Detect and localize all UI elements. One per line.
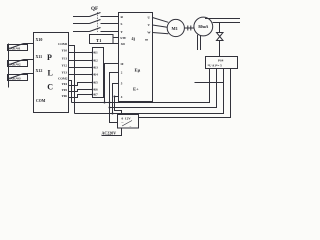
svg-text:X12: X12 [36,68,43,73]
PSU converter symbol [122,121,132,127]
switch SA1 label box [8,45,28,51]
svg-text:T: T [121,30,124,34]
wire inverter pin2 and PSU left feed [110,73,119,123]
switch SA2 label box [8,61,28,67]
inverter U2 box [119,13,153,102]
svg-text:K1: K1 [94,51,98,55]
svg-text:PS4: PS4 [218,58,224,62]
breaker QF pole 2 [73,20,119,24]
wire X10 stub [24,43,34,45]
svg-text:SA0₁*01: SA0₁*01 [9,47,21,51]
wire inverter pin10 [105,64,119,103]
svg-text:Y12: Y12 [62,64,68,68]
svg-text:2: 2 [121,71,123,75]
wire Y12-K3 [69,67,93,69]
pipe suction line 1 [197,35,199,50]
svg-text:COM2: COM2 [58,77,68,81]
svg-text:K4: K4 [94,73,98,77]
svg-text:K7: K7 [94,93,98,97]
PSU 12V box [118,115,139,129]
svg-text:R: R [121,15,124,19]
svg-text:4: 4 [121,95,123,99]
svg-text:B0шA: B0шA [198,25,208,29]
wire Y13-K4 [69,74,93,76]
svg-text:Y11: Y11 [62,57,68,61]
svg-text:Eμ: Eμ [135,68,141,73]
wire T1 to SD [113,43,119,45]
svg-text:C: C [47,83,53,92]
svg-text:X10: X10 [36,37,43,42]
motor M1 circle [167,19,184,36]
wire Y05-K6 [69,90,93,92]
PLC U1 box [34,33,69,113]
svg-text:Y04: Y04 [62,82,68,86]
svg-text:L: L [48,69,53,78]
pipe delivery line 1 [205,18,240,20]
rail bottom 2 [110,69,217,108]
pump P circle [194,17,213,36]
breaker QF tie line [97,12,99,32]
wire AC220V feed [102,128,122,136]
svg-text:QF: QF [91,6,98,12]
svg-text:SD: SD [121,42,126,46]
wire X12 stub [24,73,34,75]
valve V1 stem [219,41,221,57]
pipe suction line 2 [200,36,202,50]
svg-text:M1: M1 [172,26,178,31]
wire COM1 down rail [69,46,75,114]
svg-text:SA0₂*02: SA0₂*02 [9,63,21,67]
svg-text:X11: X11 [36,54,43,59]
wire COM2 down rail [69,81,72,103]
svg-text:AC220V: AC220V [102,130,117,135]
svg-text:STF: STF [120,36,126,40]
svg-text:ш: ш [145,38,148,42]
svg-text:E÷: E÷ [133,87,139,92]
wire X11 stub [24,59,34,61]
coupling M1-pump [184,26,194,31]
svg-text:COM: COM [36,99,46,103]
wire T1 to STF [113,37,119,39]
wire U phase [153,18,169,23]
svg-text:S: S [121,22,123,26]
svg-text:K5: K5 [94,81,98,85]
svg-text:W: W [147,31,151,35]
svg-text:4j: 4j [132,36,136,41]
wire Y11-K2 [69,60,93,62]
pressure sensor PS4 box [206,57,238,69]
relay board K box [93,48,104,98]
wire inverter pin5 [113,84,119,114]
wire V phase [153,25,168,27]
svg-text:*U A1*= 5: *U A1*= 5 [208,63,223,67]
svg-text:COM1: COM1 [58,42,68,46]
svg-text:10: 10 [120,62,124,66]
wire Y10-K1 [69,52,93,54]
svg-text:U: U [148,16,151,20]
breaker QF pole 3 [73,28,119,32]
valve V1 stub [219,23,221,33]
switch left rail [8,44,10,88]
svg-text:V: V [148,23,151,27]
rail bottom 3 [75,69,224,114]
svg-text:5: 5 [121,82,123,86]
svg-text:SA0₃*03: SA0₃*03 [9,77,21,81]
svg-text:−: − [130,125,132,129]
transformer T1 box [90,35,114,44]
svg-text:Y13: Y13 [62,71,68,75]
svg-text:Y10: Y10 [62,49,68,53]
valve V1 body [217,33,224,41]
wire W phase [153,33,169,34]
rail bottom 4 [139,69,231,118]
wire Y06-K7 [69,95,93,98]
breaker QF pole 1 [73,13,119,17]
svg-text:K3: K3 [94,66,98,70]
junction dots [92,52,116,115]
svg-text:Y06: Y06 [62,94,68,98]
svg-text:K2: K2 [94,59,98,63]
switch SA3 blade [10,74,24,79]
wire pressure sense branch [195,82,224,84]
svg-text:~: ~ [122,121,124,125]
svg-text:K6: K6 [94,88,98,92]
rail bottom 1 [72,69,210,103]
pipe delivery line 2 [213,22,240,24]
svg-text:Y05: Y05 [62,88,68,92]
wire Y04-K5 [69,83,93,86]
switch SA2 blade [10,60,24,65]
switch SA3 label box [8,75,28,81]
svg-text:P: P [47,53,52,62]
svg-text:T1: T1 [96,38,102,43]
wire inverter pin4 to PSU top [115,97,122,115]
switch SA1 blade [10,44,24,49]
